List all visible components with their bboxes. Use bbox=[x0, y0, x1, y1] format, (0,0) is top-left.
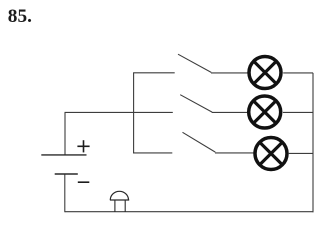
switch S2 blade (open) bbox=[180, 95, 212, 112]
lamp L2 bbox=[249, 96, 281, 128]
wire switch S1 to lamp L1 bbox=[211, 72, 248, 74]
lamp L3 bbox=[255, 138, 287, 170]
wire bottom return bbox=[65, 211, 314, 213]
battery polarity label + bbox=[77, 140, 89, 152]
wire lamp L2 to right bus bbox=[283, 111, 313, 113]
wire stub to switch S1 bbox=[133, 72, 175, 74]
svg-text:85.: 85. bbox=[8, 6, 32, 27]
wire switch S2 to lamp L2 bbox=[212, 111, 248, 113]
electric bell HA1 base line bbox=[110, 199, 129, 201]
electric bell HA1 right leg bbox=[124, 200, 126, 212]
wire stub to switch S3 bbox=[133, 152, 172, 154]
electric bell HA1 left leg bbox=[114, 200, 116, 212]
electric bell HA1 dome bbox=[110, 191, 128, 200]
wire lamp L1 to right bus bbox=[283, 72, 313, 74]
lamp L1 bbox=[249, 57, 281, 89]
wire lamp L3 to right bus bbox=[289, 152, 313, 154]
wire switch S3 to lamp L3 bbox=[215, 152, 254, 154]
battery GB positive plate (long) bbox=[41, 154, 86, 156]
wire left bus vertical bbox=[133, 73, 135, 154]
battery polarity label - bbox=[78, 181, 90, 183]
switch S3 blade (open) bbox=[183, 132, 216, 152]
battery GB negative plate (short) bbox=[55, 173, 78, 175]
switch S1 blade (open) bbox=[178, 54, 211, 72]
wire battery negative terminal down bbox=[64, 174, 66, 212]
wire stub to switch S2 bbox=[134, 111, 173, 113]
wire battery positive terminal up to node A bbox=[64, 112, 66, 154]
wire node A horizontal from battery to left bus bbox=[65, 111, 134, 113]
wire right bus vertical bbox=[312, 73, 314, 212]
